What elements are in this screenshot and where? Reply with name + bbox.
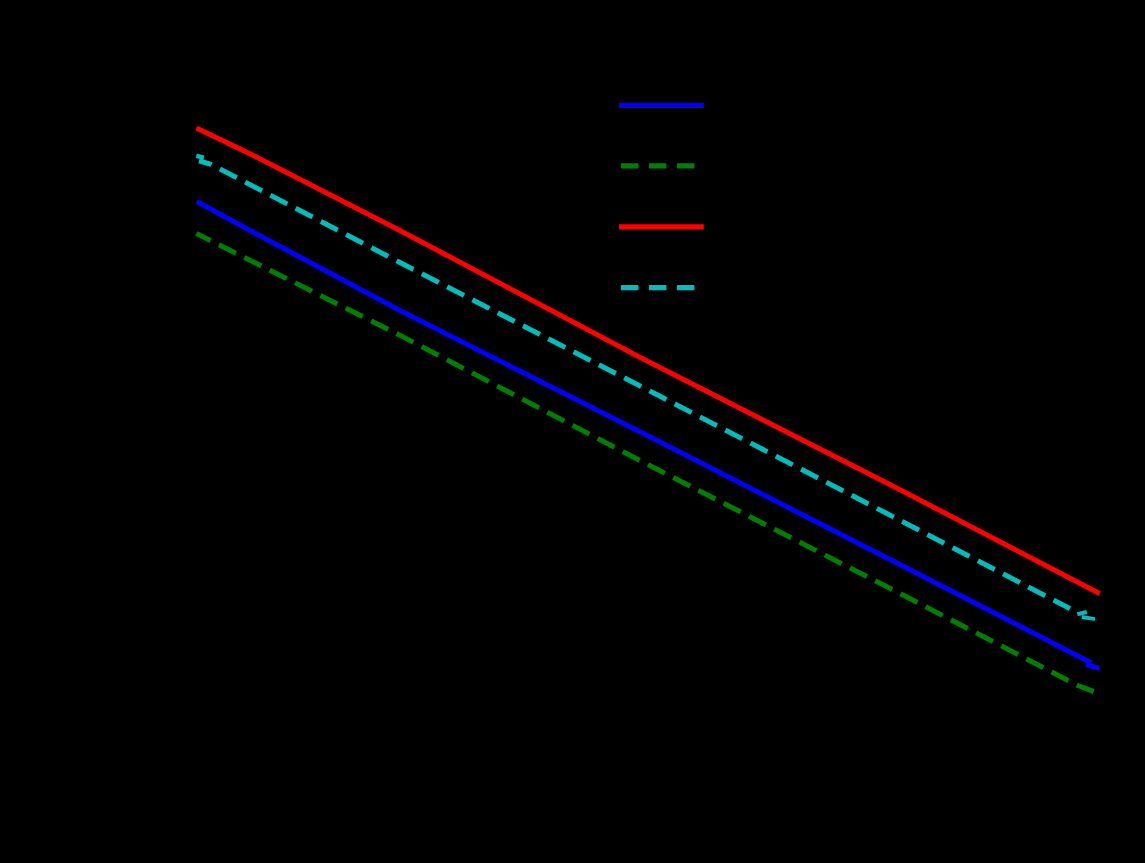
cyan curve end fold upper: [1077, 612, 1087, 614]
blue curve end fold: [1086, 664, 1099, 668]
legend sample: cyan dashed: [621, 285, 695, 290]
legend sample: blue solid: [619, 103, 704, 108]
cyan curve start fold: [196, 156, 204, 158]
cyan curve end fold lower: [1082, 617, 1095, 619]
green dashed curve: [196, 234, 1093, 692]
legend sample: green dashed: [621, 163, 695, 168]
blue solid curve (main): [197, 201, 1092, 663]
cyan dashed curve (main): [199, 161, 1070, 609]
legend sample: red solid: [619, 224, 704, 229]
red solid curve: [197, 128, 1100, 594]
